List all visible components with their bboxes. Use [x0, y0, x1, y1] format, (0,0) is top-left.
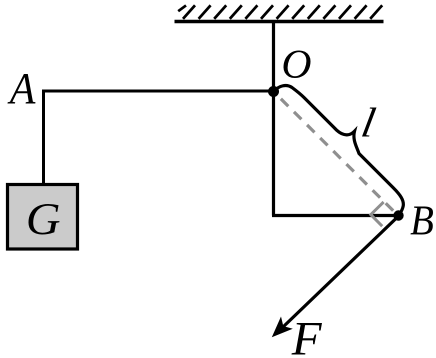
label l — [362, 108, 377, 137]
label A — [8, 74, 36, 104]
ceiling line — [175, 20, 384, 23]
joint dot B — [393, 210, 403, 220]
right-angle mark at B — [371, 202, 384, 226]
ceiling hatching — [178, 5, 382, 18]
wire: vertical hanger from ceiling through O to corner — [272, 22, 275, 216]
label O — [284, 51, 311, 79]
weight box G — [8, 185, 78, 250]
rope A to O — [42, 90, 274, 93]
pivot dot O — [268, 86, 279, 97]
label F — [292, 323, 323, 355]
label B — [411, 207, 434, 235]
dashed chord O to B — [272, 90, 397, 215]
rope A down to weight — [42, 91, 45, 185]
bent rod from O to B with brace bump — [274, 86, 403, 216]
wire: horizontal bottom line from corner to B — [272, 214, 398, 217]
force arrow F head — [272, 317, 293, 338]
label G — [29, 204, 60, 235]
force arrow F shaft — [283, 218, 397, 328]
